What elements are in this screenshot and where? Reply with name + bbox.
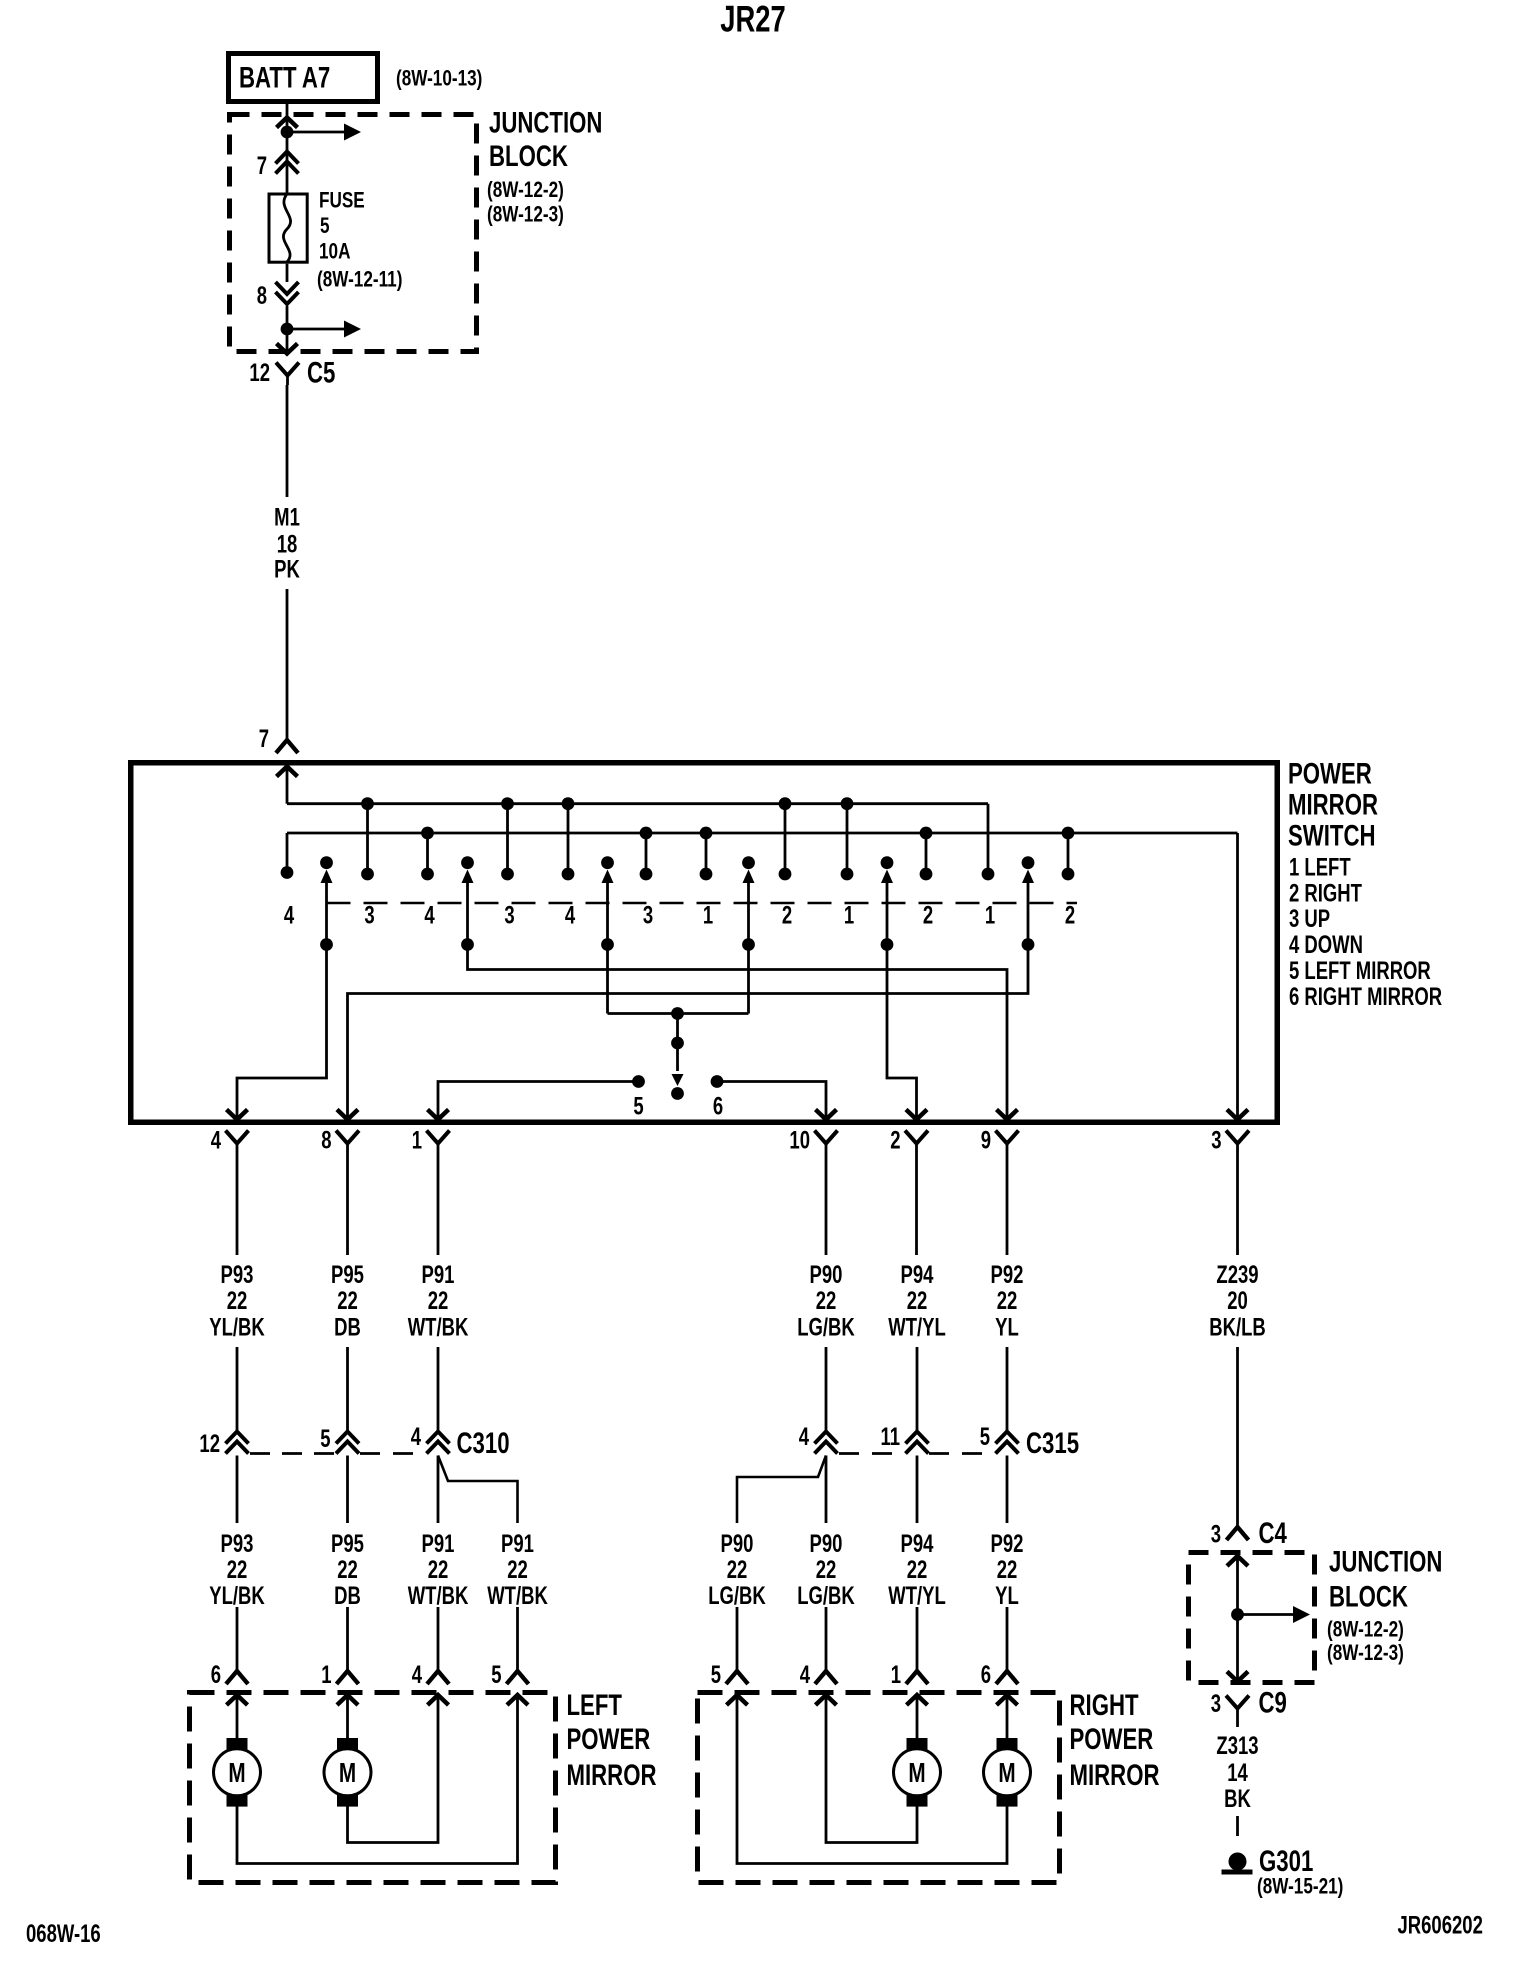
wire label P90 22 LG/BK (mirror side) x=737 bbox=[708, 1529, 766, 1609]
svg-text:2: 2 bbox=[923, 901, 933, 929]
svg-text:P92: P92 bbox=[991, 1260, 1024, 1288]
svg-text:7: 7 bbox=[259, 724, 269, 752]
svg-text:P91: P91 bbox=[422, 1529, 455, 1557]
svg-text:22: 22 bbox=[227, 1286, 248, 1314]
wire below connector row x=1007 bbox=[1006, 1456, 1009, 1524]
svg-text:4: 4 bbox=[411, 1422, 422, 1450]
svg-text:POWER: POWER bbox=[1070, 1722, 1154, 1756]
svg-text:22: 22 bbox=[337, 1286, 358, 1314]
wire label P91 22 WT/BK (mirror side) x=438 bbox=[408, 1529, 469, 1609]
svg-text:22: 22 bbox=[428, 1555, 449, 1583]
svg-text:MIRROR: MIRROR bbox=[1070, 1758, 1160, 1792]
wire wiper 887 to pin 2 bbox=[887, 945, 927, 1120]
svg-text:4: 4 bbox=[424, 901, 435, 929]
wire M1 lower segment bbox=[286, 589, 289, 740]
svg-text:6 RIGHT MIRROR: 6 RIGHT MIRROR bbox=[1289, 982, 1442, 1010]
svg-text:5: 5 bbox=[980, 1422, 990, 1450]
wire to fuse via connector 7 bbox=[286, 132, 289, 193]
svg-text:1: 1 bbox=[844, 901, 854, 929]
wire to mirror pin x=517.5 bbox=[516, 1607, 519, 1671]
left mirror motor return wires bbox=[237, 1695, 518, 1864]
connector C310 pin 4 bbox=[411, 1422, 450, 1453]
svg-text:12: 12 bbox=[199, 1429, 220, 1457]
svg-text:2 RIGHT: 2 RIGHT bbox=[1289, 879, 1362, 907]
svg-text:JUNCTION: JUNCTION bbox=[1329, 1544, 1442, 1578]
svg-text:10A: 10A bbox=[319, 240, 350, 265]
left mirror up/down motor M bbox=[214, 1695, 261, 1807]
wire below connector row x=826 bbox=[825, 1456, 828, 1524]
svg-text:3: 3 bbox=[1211, 1520, 1221, 1548]
svg-text:SWITCH: SWITCH bbox=[1288, 818, 1376, 852]
wire to mirror pin x=438 bbox=[437, 1607, 440, 1671]
branch arrow ground block bbox=[1238, 1606, 1311, 1623]
wire label P91 22 WT/BK (mirror side) x=517.5 bbox=[487, 1529, 548, 1609]
switch pin 4 connector bbox=[211, 1126, 249, 1255]
wire wiper 467 to pin 9 bbox=[468, 945, 1018, 1120]
wire to mirror pin x=1007 bbox=[1006, 1607, 1009, 1671]
mirror pin 5 connector x=737 bbox=[711, 1660, 748, 1688]
svg-text:P94: P94 bbox=[901, 1260, 935, 1288]
svg-text:(8W-12-11): (8W-12-11) bbox=[317, 268, 402, 293]
arrow into left mirror x=237 bbox=[227, 1695, 248, 1705]
switch pin 1 connector bbox=[412, 1126, 450, 1255]
svg-text:P92: P92 bbox=[991, 1529, 1024, 1557]
fixed contact stub from bus1 at x=847 bbox=[841, 797, 854, 880]
connector C315 pin 4 bbox=[799, 1422, 838, 1453]
power mirror switch box bbox=[131, 763, 1278, 1123]
wire to mirror pin x=347.5 bbox=[346, 1607, 349, 1671]
connector C315 pin 5 bbox=[980, 1422, 1019, 1453]
switch legend 1-6 bbox=[1289, 853, 1442, 1011]
svg-text:1: 1 bbox=[412, 1126, 422, 1154]
movable contact (wiper) at x=607.5 bbox=[601, 856, 614, 951]
svg-text:22: 22 bbox=[907, 1555, 928, 1583]
arrow into left mirror x=347.5 bbox=[337, 1695, 358, 1705]
arrow into right mirror x=826 bbox=[816, 1695, 837, 1705]
svg-text:22: 22 bbox=[907, 1286, 928, 1314]
arrow into ground junction block bbox=[1227, 1556, 1248, 1566]
wire below connector row x=438 bbox=[437, 1456, 440, 1524]
svg-text:1: 1 bbox=[891, 1660, 901, 1688]
svg-text:6: 6 bbox=[981, 1660, 991, 1688]
mirror selector pole arrow bbox=[671, 1014, 684, 1100]
arrow into left mirror x=438 bbox=[428, 1695, 449, 1705]
svg-text:3: 3 bbox=[1211, 1689, 1221, 1717]
left power mirror dashed box bbox=[190, 1693, 556, 1883]
svg-text:6: 6 bbox=[713, 1092, 723, 1120]
svg-text:C4: C4 bbox=[1259, 1516, 1288, 1550]
svg-text:5: 5 bbox=[633, 1092, 643, 1120]
svg-text:22: 22 bbox=[997, 1286, 1018, 1314]
svg-text:(8W-10-13): (8W-10-13) bbox=[396, 67, 482, 92]
svg-text:3: 3 bbox=[504, 901, 514, 929]
svg-text:YL: YL bbox=[995, 1581, 1019, 1609]
svg-text:FUSE: FUSE bbox=[319, 189, 365, 214]
fixed contact stub from bus1 at x=507.5 bbox=[501, 797, 514, 880]
branch arrow to other circuits (bottom) bbox=[287, 321, 361, 338]
wire below connector row x=917 bbox=[916, 1456, 919, 1524]
wire segment to connector row x=438 bbox=[437, 1347, 440, 1432]
svg-text:(8W-12-3): (8W-12-3) bbox=[1327, 1641, 1404, 1666]
switch pin 2 connector bbox=[890, 1126, 928, 1255]
arrow into right mirror x=917 bbox=[907, 1695, 928, 1705]
svg-text:RIGHT: RIGHT bbox=[1070, 1688, 1139, 1722]
svg-text:JR27: JR27 bbox=[720, 0, 785, 39]
connector C315 dashed tie and name bbox=[839, 1426, 1079, 1460]
label POWER MIRROR SWITCH bbox=[1288, 756, 1378, 852]
svg-text:PK: PK bbox=[274, 555, 300, 583]
svg-text:BLOCK: BLOCK bbox=[489, 139, 568, 173]
switch pin 10 connector bbox=[789, 1126, 837, 1255]
bus 2 (output bus to pin 3) bbox=[287, 833, 1238, 873]
svg-text:22: 22 bbox=[727, 1555, 748, 1583]
wire P91 split branch below C310 bbox=[438, 1456, 518, 1524]
mirror pin 1 connector x=347.5 bbox=[321, 1660, 358, 1688]
mirror pin 4 connector x=826 bbox=[800, 1660, 837, 1688]
svg-text:BK/LB: BK/LB bbox=[1209, 1313, 1266, 1341]
svg-text:C315: C315 bbox=[1026, 1426, 1079, 1460]
svg-text:YL/BK: YL/BK bbox=[209, 1581, 265, 1609]
svg-text:5 LEFT MIRROR: 5 LEFT MIRROR bbox=[1289, 956, 1431, 984]
right mirror motor return wires bbox=[737, 1695, 1007, 1864]
svg-text:WT/YL: WT/YL bbox=[888, 1313, 946, 1341]
wire label P94 22 WT/YL (mirror side) x=917 bbox=[888, 1529, 946, 1609]
svg-text:M: M bbox=[339, 1758, 356, 1789]
fixed contact dot entry column bbox=[281, 866, 294, 879]
wire fuse output bbox=[286, 306, 289, 353]
wire label P91 22 WT/BK col x=438 bbox=[408, 1260, 469, 1341]
svg-text:11: 11 bbox=[880, 1422, 900, 1450]
svg-text:LG/BK: LG/BK bbox=[708, 1581, 766, 1609]
svg-text:P95: P95 bbox=[331, 1529, 364, 1557]
svg-text:(8W-12-3): (8W-12-3) bbox=[487, 203, 564, 228]
wire M1 upper segment bbox=[286, 385, 289, 497]
wire label Z313 14 BK bbox=[1216, 1731, 1258, 1812]
fixed contact stub from bus2 at x=646 bbox=[640, 827, 653, 881]
movable contact (wiper) at x=1028 bbox=[1022, 856, 1035, 951]
mirror pin 6 connector x=237 bbox=[211, 1660, 248, 1688]
sheet code JR606202 bbox=[1398, 1911, 1483, 1939]
junction block (ground side) dashed box bbox=[1189, 1553, 1315, 1683]
label JUNCTION BLOCK (ground side) bbox=[1327, 1544, 1442, 1665]
svg-text:(8W-12-2): (8W-12-2) bbox=[487, 178, 564, 203]
svg-text:LG/BK: LG/BK bbox=[797, 1581, 855, 1609]
movable contact (wiper) at x=467.5 bbox=[461, 856, 474, 951]
svg-text:22: 22 bbox=[816, 1286, 837, 1314]
wire label P95 22 DB col x=347.5 bbox=[331, 1260, 364, 1341]
svg-text:P91: P91 bbox=[422, 1260, 455, 1288]
label RIGHT POWER MIRROR bbox=[1070, 1688, 1160, 1792]
svg-text:POWER: POWER bbox=[1288, 756, 1372, 790]
connector C310 dashed tie and name bbox=[250, 1426, 510, 1460]
svg-text:WT/BK: WT/BK bbox=[408, 1313, 469, 1341]
connector pin 8 (junction block internal) bbox=[257, 264, 299, 310]
svg-text:1 LEFT: 1 LEFT bbox=[1289, 853, 1351, 881]
svg-text:YL/BK: YL/BK bbox=[209, 1313, 265, 1341]
svg-text:4: 4 bbox=[284, 901, 295, 929]
svg-text:8: 8 bbox=[321, 1126, 331, 1154]
wire to mirror pin x=737 bbox=[736, 1607, 739, 1671]
svg-text:7: 7 bbox=[257, 151, 267, 179]
wire to mirror pin x=237 bbox=[236, 1607, 239, 1671]
right mirror left/right motor M bbox=[894, 1695, 941, 1807]
svg-text:22: 22 bbox=[816, 1555, 837, 1583]
fixed contact stub from bus1 at x=568 bbox=[562, 797, 575, 880]
right power mirror dashed box bbox=[698, 1693, 1060, 1883]
svg-text:2: 2 bbox=[890, 1126, 900, 1154]
junction block (battery side) dashed box bbox=[230, 115, 477, 352]
svg-text:6: 6 bbox=[211, 1660, 221, 1688]
wire label P95 22 DB (mirror side) x=347.5 bbox=[331, 1529, 364, 1609]
wire label P92 22 YL col x=1007 bbox=[991, 1260, 1024, 1341]
svg-text:3 UP: 3 UP bbox=[1289, 904, 1330, 932]
wire Z239 to C4 bbox=[1236, 1347, 1239, 1527]
svg-text:C5: C5 bbox=[307, 355, 335, 389]
svg-text:P90: P90 bbox=[810, 1529, 843, 1557]
svg-text:4: 4 bbox=[565, 901, 576, 929]
connector C315 pin 11 bbox=[880, 1422, 928, 1453]
svg-text:WT/YL: WT/YL bbox=[888, 1581, 946, 1609]
svg-text:22: 22 bbox=[227, 1555, 248, 1583]
svg-text:1: 1 bbox=[321, 1660, 331, 1688]
svg-text:C9: C9 bbox=[1259, 1685, 1287, 1719]
wire segment to connector row x=917 bbox=[916, 1347, 919, 1432]
svg-text:22: 22 bbox=[428, 1286, 449, 1314]
svg-text:20: 20 bbox=[1227, 1286, 1248, 1314]
mirror selector common bar bbox=[608, 945, 749, 1020]
bus 2 tail down to pin 3 bbox=[1227, 833, 1248, 1120]
wire label P90 22 LG/BK col x=826 bbox=[797, 1260, 855, 1341]
wire segment to connector row x=237 bbox=[236, 1347, 239, 1432]
svg-text:M: M bbox=[908, 1758, 925, 1789]
svg-text:10: 10 bbox=[789, 1126, 810, 1154]
switch pin 8 connector bbox=[321, 1126, 359, 1255]
arrow into right mirror x=737 bbox=[727, 1695, 748, 1705]
svg-text:Z313: Z313 bbox=[1216, 1731, 1258, 1759]
wire to mirror pin x=826 bbox=[825, 1607, 828, 1671]
wire below connector row x=347.5 bbox=[346, 1456, 349, 1524]
svg-text:MIRROR: MIRROR bbox=[1288, 787, 1378, 821]
wire wiper 326 to pin 4 bbox=[227, 945, 327, 1120]
selector contact 6 to pin 10 bbox=[711, 1075, 837, 1119]
sheet number 068W-16 bbox=[26, 1919, 101, 1947]
fixed contact stub from bus2 at x=1068 bbox=[1062, 827, 1075, 881]
arrow into right mirror x=1007 bbox=[997, 1695, 1018, 1705]
svg-text:WT/BK: WT/BK bbox=[408, 1581, 469, 1609]
junction dot fuse output bbox=[281, 323, 294, 336]
svg-text:LG/BK: LG/BK bbox=[797, 1313, 855, 1341]
svg-text:P93: P93 bbox=[221, 1260, 254, 1288]
right mirror up/down motor M bbox=[984, 1695, 1031, 1807]
switch contact number labels bbox=[284, 901, 1075, 929]
connector pin 7 (junction block internal) bbox=[257, 151, 299, 179]
switch pin 9 connector bbox=[981, 1126, 1019, 1255]
arrow out of ground junction block bbox=[1227, 1672, 1248, 1682]
svg-text:4 DOWN: 4 DOWN bbox=[1289, 930, 1363, 958]
wire segment to connector row x=347.5 bbox=[346, 1347, 349, 1432]
svg-text:5: 5 bbox=[491, 1660, 501, 1688]
switch pin 3 connector bbox=[1211, 1126, 1249, 1255]
wire through ground junction block bbox=[1236, 1556, 1239, 1682]
svg-text:12: 12 bbox=[249, 358, 270, 386]
wire label P93 22 YL/BK (mirror side) x=237 bbox=[209, 1529, 265, 1609]
arrow out of junction block bottom bbox=[277, 344, 298, 354]
wire to mirror pin x=917 bbox=[916, 1607, 919, 1671]
wire Z313 to ground bbox=[1236, 1816, 1239, 1836]
arrow switch pin 7 entry bbox=[277, 767, 298, 804]
junction dot ground block bbox=[1231, 1608, 1244, 1621]
svg-text:3: 3 bbox=[643, 901, 653, 929]
label LEFT POWER MIRROR bbox=[567, 1688, 657, 1792]
fixed contact stub from bus1 corner x=988 bbox=[982, 868, 995, 881]
arrow into left mirror x=517.5 bbox=[507, 1695, 528, 1705]
wire segment to connector row x=826 bbox=[825, 1347, 828, 1432]
svg-text:BK: BK bbox=[1224, 1784, 1251, 1812]
svg-text:BATT A7: BATT A7 bbox=[239, 60, 330, 94]
svg-text:3: 3 bbox=[1211, 1126, 1221, 1154]
svg-text:P94: P94 bbox=[901, 1529, 935, 1557]
fixed contact stub from bus2 at x=706 bbox=[700, 827, 713, 881]
wire P90 split branch below C315 bbox=[737, 1456, 826, 1524]
svg-text:C310: C310 bbox=[457, 1426, 510, 1460]
mirror pin 5 connector x=517.5 bbox=[491, 1660, 528, 1688]
ground G301 bbox=[1222, 1844, 1344, 1899]
svg-text:22: 22 bbox=[337, 1555, 358, 1583]
wire BATT A7 into junction block bbox=[286, 104, 289, 132]
fixed contact stub from bus2 at x=926 bbox=[920, 827, 933, 881]
svg-text:Z239: Z239 bbox=[1216, 1260, 1258, 1288]
connector C310 pin 12 bbox=[199, 1429, 248, 1457]
svg-text:BLOCK: BLOCK bbox=[1329, 1579, 1408, 1613]
svg-text:4: 4 bbox=[412, 1660, 423, 1688]
wire label M1 18 PK bbox=[274, 503, 300, 583]
connector C4 pin 3 bbox=[1211, 1516, 1287, 1550]
svg-text:2: 2 bbox=[1065, 901, 1075, 929]
svg-text:DB: DB bbox=[334, 1581, 361, 1609]
fixed contact stub from bus1 at x=785 bbox=[779, 797, 792, 880]
connector C5 pin 12 bbox=[249, 355, 335, 389]
svg-text:1: 1 bbox=[703, 901, 713, 929]
fixed contact stub from bus1 at x=367.5 bbox=[361, 797, 374, 880]
branch arrow to other circuits (top) bbox=[287, 124, 361, 141]
label JUNCTION BLOCK (8W-12-2) (8W-12-3) bbox=[487, 105, 602, 227]
fuse 5 10A bbox=[269, 194, 307, 262]
junction dot battery feed bbox=[281, 126, 294, 139]
bus 1 (feed bus from pin 7) bbox=[287, 804, 988, 874]
selector contact labels 5 6 bbox=[633, 1092, 723, 1120]
svg-text:M: M bbox=[228, 1758, 245, 1789]
connector C310 pin 5 bbox=[320, 1424, 359, 1453]
svg-text:(8W-15-21): (8W-15-21) bbox=[1257, 1875, 1343, 1900]
wire segment to connector row x=1007 bbox=[1006, 1347, 1009, 1432]
selector contact 5 to pin 1 bbox=[428, 1075, 645, 1119]
svg-text:2: 2 bbox=[782, 901, 792, 929]
svg-text:M: M bbox=[998, 1758, 1015, 1789]
wire label P93 22 YL/BK col x=237 bbox=[209, 1260, 265, 1341]
svg-text:4: 4 bbox=[211, 1126, 222, 1154]
svg-text:14: 14 bbox=[1227, 1758, 1248, 1786]
mirror pin 1 connector x=917 bbox=[891, 1660, 928, 1688]
svg-text:LEFT: LEFT bbox=[567, 1688, 622, 1722]
svg-text:YL: YL bbox=[995, 1313, 1019, 1341]
connector pin 7 power mirror switch bbox=[259, 724, 298, 753]
svg-text:4: 4 bbox=[800, 1660, 811, 1688]
svg-text:4: 4 bbox=[799, 1422, 810, 1450]
svg-text:22: 22 bbox=[997, 1555, 1018, 1583]
mirror pin 6 connector x=1007 bbox=[981, 1660, 1018, 1688]
svg-text:5: 5 bbox=[320, 214, 330, 239]
svg-text:P90: P90 bbox=[810, 1260, 843, 1288]
movable contact (wiper) at x=326.5 bbox=[320, 856, 333, 951]
svg-text:22: 22 bbox=[507, 1555, 528, 1583]
title JR27 bbox=[720, 0, 785, 39]
arrow into junction block top bbox=[277, 118, 298, 128]
svg-text:3: 3 bbox=[364, 901, 374, 929]
wire label Z239 20 BK/LB col x=1237.5 bbox=[1209, 1260, 1266, 1341]
svg-text:G301: G301 bbox=[1259, 1844, 1313, 1878]
left mirror left/right motor M bbox=[324, 1695, 371, 1807]
svg-text:JUNCTION: JUNCTION bbox=[489, 105, 602, 139]
connector C9 pin 3 bbox=[1211, 1685, 1287, 1727]
svg-text:M1: M1 bbox=[274, 503, 300, 531]
fuse labels FUSE 5 10A (8W-12-11) bbox=[317, 189, 402, 293]
svg-text:5: 5 bbox=[711, 1660, 721, 1688]
svg-text:P91: P91 bbox=[501, 1529, 534, 1557]
mechanical linkage dashed line bbox=[327, 902, 1078, 905]
movable contact (wiper) at x=887 bbox=[881, 856, 894, 951]
wire label P92 22 YL (mirror side) x=1007 bbox=[991, 1529, 1024, 1609]
svg-text:1: 1 bbox=[985, 901, 995, 929]
svg-text:P95: P95 bbox=[331, 1260, 364, 1288]
svg-text:P90: P90 bbox=[721, 1529, 754, 1557]
wire label P90 22 LG/BK (mirror side) x=826 bbox=[797, 1529, 855, 1609]
svg-text:MIRROR: MIRROR bbox=[567, 1758, 657, 1792]
svg-text:DB: DB bbox=[334, 1313, 361, 1341]
fixed contact stub from bus2 at x=427.5 bbox=[421, 827, 434, 881]
wire below connector row x=237 bbox=[236, 1456, 239, 1524]
movable contact (wiper) at x=748.5 bbox=[742, 856, 755, 951]
svg-text:POWER: POWER bbox=[567, 1722, 651, 1756]
wire label P94 22 WT/YL col x=917 bbox=[888, 1260, 946, 1341]
reference (8W-10-13) bbox=[396, 67, 482, 92]
wire wiper 1028 to pin 8 bbox=[337, 945, 1028, 1120]
svg-text:8: 8 bbox=[257, 281, 267, 309]
svg-text:5: 5 bbox=[320, 1424, 330, 1452]
mirror pin 4 connector x=438 bbox=[412, 1660, 449, 1688]
svg-text:9: 9 bbox=[981, 1126, 991, 1154]
svg-text:P93: P93 bbox=[221, 1529, 254, 1557]
svg-text:068W-16: 068W-16 bbox=[26, 1919, 101, 1947]
svg-text:(8W-12-2): (8W-12-2) bbox=[1327, 1618, 1404, 1643]
svg-text:JR606202: JR606202 bbox=[1398, 1911, 1483, 1939]
svg-text:WT/BK: WT/BK bbox=[487, 1581, 548, 1609]
battery feed box BATT A7 bbox=[229, 54, 378, 102]
